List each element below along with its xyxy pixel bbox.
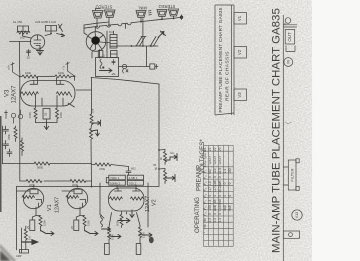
svg-text:1M: 1M (28, 236, 32, 240)
arrow (right column lower, out) (165, 175, 175, 182)
node dot A (50, 33, 52, 35)
pins of V4 (radial leads) (88, 32, 106, 49)
plate box V1a (30, 189, 38, 194)
tone box TB2 (127, 175, 143, 180)
wire (J3 drop) (140, 18, 142, 23)
wire (long feed diagonal with hops) (84, 17, 180, 28)
svg-text:5600: 5600 (37, 166, 44, 170)
scan artifact (corner wedge, soft) (0, 246, 15, 261)
wire (cathode join) (36, 119, 58, 123)
tube V5 (small triode circle) (30, 35, 44, 49)
wire (left edge bus) (2, 126, 4, 164)
svg-text:6v8: 6v8 (223, 205, 227, 210)
jack J7 (output to main amp) (20, 250, 29, 254)
wire (T1 to tube V5) (23, 33, 32, 39)
coupling box L1b (111, 51, 118, 58)
connector (on line, with squiggle) (122, 64, 126, 68)
capacitor C8 (left edge top) (3, 126, 9, 134)
svg-text:119: 119 (213, 168, 217, 173)
svg-text:700k 1: 700k 1 (110, 176, 120, 180)
node dot (divider c) (150, 45, 152, 47)
svg-text:12AX7: 12AX7 (208, 155, 212, 164)
scan artifact (left edge shadow) (0, 116, 2, 212)
svg-text:117: 117 (208, 187, 212, 192)
grid resistor R13 (over V1a) (22, 196, 35, 199)
wire (trunk B with resistors) (20, 180, 92, 182)
shading blob (center) (53, 43, 177, 147)
svg-text:STEREO: STEREO (159, 4, 176, 9)
svg-text:0: 0 (223, 195, 227, 197)
svg-text:117: 117 (213, 187, 217, 192)
capacitor C14 (box, V2a out) (105, 244, 110, 255)
capacitor C10 (small, left) (7, 149, 12, 157)
table outer frame (204, 146, 234, 247)
resistor R11 (trunk B left) (26, 180, 42, 183)
node dot (divider a) (131, 45, 133, 47)
speaker jack circle (top) (285, 18, 291, 24)
ground (V2b, arrow right) (140, 233, 152, 237)
svg-text:MAIN-AMP TUBE PLACEMENT CHA: MAIN-AMP TUBE PLACEMENT CHART GA835 (271, 8, 283, 253)
node dot (R5/plate) (74, 75, 76, 77)
shading blob (jack row) (70, 2, 190, 38)
wire (mid bus down to trunks) (90, 140, 93, 187)
node dot (bus tap a) (158, 149, 160, 151)
triode elements V2b (131, 186, 144, 201)
wire (plate lead V1b) (62, 190, 74, 192)
arrow (signal right) (61, 34, 65, 37)
capacitor C5 (slant trimmer 2) (150, 37, 160, 47)
svg-text:700.2: 700.2 (129, 181, 137, 185)
capacitor C1 (slant mark) (59, 24, 63, 32)
svg-text:0: 0 (213, 195, 217, 197)
svg-text:Vex: Vex (170, 151, 175, 155)
svg-text:V3: V3 (218, 147, 222, 151)
filter choke box (288, 160, 296, 190)
svg-text:18.5: 18.5 (218, 168, 222, 175)
resistor R23 (right column upper) (164, 150, 167, 165)
svg-text:6C4: 6C4 (109, 30, 114, 34)
svg-text:150: 150 (228, 168, 232, 174)
arrow (right column upper, out) (165, 154, 177, 161)
svg-text:0: 0 (208, 176, 212, 178)
wire (V4 top pin to feed) (94, 27, 96, 32)
wire (trunk A) (3, 163, 92, 165)
tube socket V2 (preamp chart) (234, 47, 247, 59)
chassis edge line (282, 15, 284, 261)
capacitor C11 (bypass box V1a) (30, 220, 35, 231)
wire (V2b cathode to R22) (137, 213, 141, 226)
svg-text:V2: V2 (152, 199, 158, 206)
svg-text:18.2: 18.2 (218, 186, 222, 193)
svg-text:12AX7: 12AX7 (12, 85, 18, 104)
svg-text:1.4: 1.4 (223, 169, 227, 174)
OUT transformer box (285, 30, 295, 45)
svg-text:687: 687 (208, 168, 212, 174)
wire (V2 feeds) (100, 183, 148, 227)
svg-text:V6: V6 (286, 60, 290, 64)
resistor R21 (V2a out, vertical) (108, 227, 111, 244)
arrow (to B+ top right) (158, 31, 166, 38)
resistor R15 (V1a cathode, vertical) (32, 216, 42, 231)
svg-text:0: 0 (213, 176, 217, 178)
svg-text:0: 0 (208, 213, 212, 215)
wire (second feed segment) (84, 22, 109, 25)
tone box TB1 (109, 175, 126, 180)
svg-text:0: 0 (218, 213, 222, 215)
wire (left bus V3 down) (19, 104, 21, 181)
wire (V2a cathode to R21) (109, 213, 112, 228)
wire (stub at plug) (181, 15, 183, 20)
resistor R5 (plate load b) (55, 75, 75, 81)
node dot (J3 drop) (140, 21, 142, 23)
wire (group1 drops to feed line) (97, 18, 109, 27)
wire (V2 bottom stubs) (100, 212, 127, 218)
svg-text:1.4: 1.4 (208, 199, 212, 204)
wire (V1b cathode down) (79, 207, 81, 216)
svg-text:REAR OF CHASSIS: REAR OF CHASSIS (225, 51, 231, 101)
plug J6 (square line plug) (150, 64, 155, 69)
tube V6 circle (284, 58, 293, 67)
bracket under OUT box (286, 46, 295, 52)
jack J3 (136, 11, 146, 18)
svg-text:6v8: 6v8 (218, 199, 222, 204)
svg-text:470k: 470k (99, 167, 106, 171)
wire (trunk C long) (17, 186, 160, 188)
ground (V1a, arrow right) (41, 231, 55, 236)
plate box V1b (74, 189, 82, 194)
tube socket V1 (preamp chart) (234, 13, 247, 25)
jack J2 (105, 10, 116, 18)
svg-text:0: 0 (213, 213, 217, 215)
svg-text:V1: V1 (208, 147, 212, 151)
arrow (inside U2) (100, 69, 113, 73)
svg-text:AvB: AvB (213, 204, 217, 211)
wire (left bus into V3) (19, 71, 21, 104)
shading blob (title strip) (266, 0, 294, 261)
svg-text:0: 0 (218, 195, 222, 197)
svg-text:1500: 1500 (87, 220, 91, 226)
tube V1a (triode circle) (23, 188, 43, 208)
wire (divider bottom bus) (134, 19, 158, 67)
node dot (bus tap b) (158, 168, 160, 170)
capacitor C9 (left edge lower) (3, 141, 9, 150)
main-amp chassis drawing (283, 15, 302, 261)
svg-text:100k: 100k (58, 71, 65, 75)
svg-text:1.8: 1.8 (208, 181, 212, 186)
shading blob (chart strip) (204, 0, 256, 122)
tone box TB3 (109, 180, 126, 185)
triode elements V2a (110, 186, 123, 201)
svg-text:AvB: AvB (218, 180, 222, 187)
resistor R20 (tone pot, vertical) (120, 212, 123, 228)
node dot (trunk C / V1b) (77, 186, 79, 188)
scan artifact (ink blotch) (149, 237, 154, 243)
node dot (bus/R4) (19, 76, 21, 78)
node dot (J2 drop) (108, 24, 110, 26)
capacitor C4 (slant trimmer) (135, 37, 146, 47)
svg-text:0: 0 (228, 195, 232, 197)
capacitor marks (inside U2 right) (112, 60, 115, 75)
node dot (U2) (102, 66, 104, 68)
jack J1 (93, 9, 104, 19)
wiper arrow (tone pot) (118, 218, 130, 222)
svg-text:.02: .02 (26, 56, 30, 60)
wire (filter stubs to chassis line) (283, 167, 288, 185)
svg-text:OPERATING: OPERATING (194, 197, 201, 233)
test point TP2 (right) (66, 62, 75, 76)
connector strip (bottom) (283, 231, 299, 238)
wire (pot bottom) (25, 242, 27, 250)
test point TP1 (left) (11, 63, 20, 77)
operating voltages table (204, 146, 234, 247)
svg-text:6.3: 6.3 (208, 218, 212, 223)
svg-text:6.3: 6.3 (213, 218, 217, 223)
tube V5 circle (292, 210, 302, 220)
shading blob (mid-left) (0, 88, 83, 212)
resistor R4 (plate load a) (20, 75, 55, 78)
filter box tabs (296, 159, 299, 163)
triode elements V3b (57, 78, 72, 97)
grid resistor R14 (over V1b) (66, 196, 78, 199)
svg-text:AMP: AMP (16, 254, 22, 258)
wire (J4 J5 drops) (162, 16, 174, 20)
column lines (rotated tube rows) (208, 146, 228, 247)
resistor R6 (cathode a, vertical) (34, 108, 37, 123)
cap of V4 (solid center) (91, 36, 100, 45)
ground (mid chain, down arrow) (91, 130, 99, 136)
jack J4 (157, 10, 167, 17)
wire (main bus vertical) (158, 84, 160, 186)
transformer T2 (double box right) (46, 26, 57, 32)
resistor R3 (inside U2, wavy) (100, 59, 102, 69)
node dot (J5 drop) (173, 18, 175, 20)
svg-text:.68: .68 (213, 199, 217, 204)
wire (bus to right column) (159, 150, 165, 170)
svg-text:.05: .05 (153, 163, 157, 167)
jack J5 (169, 9, 179, 16)
wire (volume pot feed) (17, 187, 22, 251)
wire (cluster to divider) (117, 45, 134, 47)
effects box U2 (96, 58, 119, 77)
main-amp chart big title (271, 8, 283, 253)
svg-text:0: 0 (208, 195, 212, 197)
svg-text:(m): (m) (20, 36, 25, 40)
shading blob (bottom-center) (33, 173, 177, 257)
arrow (ground tap V2a) (102, 227, 111, 231)
capacitor C2 (left of V5, with leads) (27, 50, 31, 56)
capacitor C13 (before tone stack) (126, 167, 131, 176)
tone box TB4 (127, 180, 143, 185)
resistor (beside J3) (149, 11, 152, 16)
triode elements V5 (34, 35, 41, 48)
svg-text:Lv8: Lv8 (218, 205, 222, 210)
tube V3 (dual triode envelope) (21, 81, 76, 107)
capacitor C12 (bypass box V1b) (74, 220, 79, 231)
svg-text:0: 0 (228, 182, 232, 184)
triode elements V3a (21, 77, 38, 96)
wire (V1a cathode down) (35, 207, 37, 216)
chassis top bar (283, 25, 297, 27)
resistor R22 (V2b out, vertical) (139, 226, 142, 244)
svg-text:A29 HMB 2 6dJ: A29 HMB 2 6dJ (35, 20, 57, 24)
svg-text:1500: 1500 (43, 220, 47, 226)
capacitor C15 (box, V2b out) (136, 244, 141, 255)
svg-text:V13: V13 (295, 212, 299, 218)
svg-text:12AX7: 12AX7 (213, 155, 217, 164)
svg-text:PREAMP TUBE PLACEMENT CHART: PREAMP TUBE PLACEMENT CHART GA835 (218, 7, 224, 112)
triode elements V1a (36, 200, 42, 208)
wire (drop from J1 area to mixer) (84, 25, 87, 35)
svg-text:u.5v: u.5v (7, 64, 11, 70)
svg-text:6.3: 6.3 (218, 218, 222, 223)
capacitor C16 (squiggle near V2a) (101, 215, 103, 227)
wire (line-out from U2) (119, 66, 150, 68)
wire (U2 bottom border to main bus, sloped) (91, 78, 159, 85)
resistor R25 (mid chain upper, vertical) (90, 114, 93, 125)
svg-text:OUT: OUT (287, 32, 292, 42)
resistor R16 (V1b cathode, vertical) (76, 216, 86, 231)
svg-text:6v8: 6v8 (228, 205, 232, 210)
svg-text:500k: 500k (116, 220, 120, 226)
svg-text:0: 0 (218, 176, 222, 178)
node dot (trunk C / V1a) (33, 186, 35, 188)
ground (V1b, arrow right) (85, 231, 99, 236)
wire (V4 plate vertical) (106, 31, 108, 58)
svg-text:.05: .05 (102, 54, 106, 58)
wire (plate lead V1a) (17, 190, 31, 192)
arrow (mid chain tap) (92, 120, 101, 126)
svg-text:+7v: +7v (62, 65, 66, 70)
transformer T1 (double box left) (18, 26, 29, 32)
svg-text:Tube Type: Tube Type (203, 153, 207, 167)
connector P1 (line end plug) (180, 16, 183, 19)
svg-text:470k: 470k (7, 133, 11, 140)
resistor R12 (trunk B right) (70, 180, 86, 183)
svg-text:V3: V3 (5, 89, 11, 97)
svg-text:12AX7: 12AX7 (55, 197, 61, 213)
wire (V3b plate to mid bus) (76, 78, 92, 115)
preamp tube placement chart frame (215, 5, 234, 115)
svg-text:1500: 1500 (142, 232, 146, 238)
svg-text:FILTER: FILTER (290, 168, 295, 181)
transformer L1 (ladder box) (110, 35, 117, 49)
wire (left feed line) (10, 41, 32, 43)
svg-text:V2: V2 (213, 147, 217, 151)
row lines (rotated pin columns) (204, 151, 234, 240)
svg-text:50M6.2: 50M6.2 (110, 181, 121, 185)
svg-text:V2: V2 (237, 49, 242, 55)
svg-text:4.6B 1: 4.6B 1 (129, 176, 138, 180)
wiper arrow (volume pot) (22, 240, 38, 244)
svg-text:P₈: P₈ (203, 206, 207, 210)
svg-text:V3: V3 (237, 92, 242, 98)
trimmer symbols (left of V3 cathode area) (5, 111, 8, 119)
node dot (divider b) (142, 45, 144, 47)
resistor R1 (zigzag under T1) (17, 31, 30, 34)
svg-text:Ca6: Ca6 (213, 180, 217, 186)
wire (corner down to left bus) (19, 42, 21, 72)
resistor R18 (mixer feed, horizontal) (92, 163, 129, 167)
svg-text:0: 0 (223, 182, 227, 184)
chassis bar (preamp chart) (232, 5, 235, 115)
wire (U1 top feed) (114, 24, 126, 35)
wire (V4 pin to lower stub) (92, 49, 100, 58)
triode elements V1b (80, 200, 86, 208)
wire (V4 plate out, right) (106, 42, 111, 44)
svg-text:1500: 1500 (59, 112, 63, 118)
wire (T2 down to node) (45, 31, 51, 36)
resistor R9 (left column 2, vertical) (21, 138, 24, 156)
capacitor C7 (bypass, boxed) (43, 109, 50, 120)
tube V2 (dual triode envelope) (109, 188, 145, 211)
shading blob (top-left) (0, 5, 107, 85)
svg-text:100k: 100k (25, 71, 32, 75)
svg-text:12AX7: 12AX7 (218, 155, 222, 164)
resistor R24 (right column lower) (164, 169, 167, 184)
svg-text:No.: No. (203, 147, 207, 152)
node dot (J1 drop) (96, 26, 98, 28)
svg-text:602: 602 (131, 167, 136, 171)
svg-text:V1: V1 (237, 15, 242, 21)
node dot (trunk C / mid) (91, 186, 93, 188)
tube V4 (socket top view) (86, 32, 106, 52)
resistor R7 (cathode b, vertical) (56, 108, 59, 123)
pilot circle (in strip) (289, 233, 293, 237)
wire (node to arrow) (57, 34, 62, 35)
resistor R26 (mid chain lower, vertical) (90, 125, 93, 139)
ground (V2a, arrow right) (109, 235, 121, 239)
ground (V2 center) (130, 210, 134, 218)
svg-text:V1: V1 (47, 204, 53, 211)
svg-text:MIN.: MIN. (138, 6, 147, 11)
svg-text:25: 25 (43, 112, 47, 116)
shading blob (table zone) (196, 147, 252, 261)
node dot (J4 drop) (161, 18, 163, 20)
wire (tone stack stubs) (106, 178, 135, 183)
svg-text:1500: 1500 (111, 234, 115, 240)
tube socket V3 (preamp chart) (234, 89, 247, 101)
capacitor C6 (stub box) (98, 51, 103, 58)
tube V1b (triode circle) (67, 188, 87, 208)
svg-text:10k: 10k (91, 108, 95, 113)
resistor R8 (left column, vertical) (14, 126, 17, 142)
resistor R10 (in trunk A) (34, 162, 50, 165)
svg-text:ba 450: ba 450 (13, 20, 23, 24)
ground (under V5 cathode) (37, 47, 44, 55)
svg-text:1500: 1500 (28, 112, 32, 118)
resistor R17 (volume pot, vertical) (24, 226, 27, 242)
wire (V3 cathode drops) (36, 96, 75, 109)
ground (V3 cathodes) (44, 123, 48, 130)
svg-text:150: 150 (208, 205, 212, 211)
